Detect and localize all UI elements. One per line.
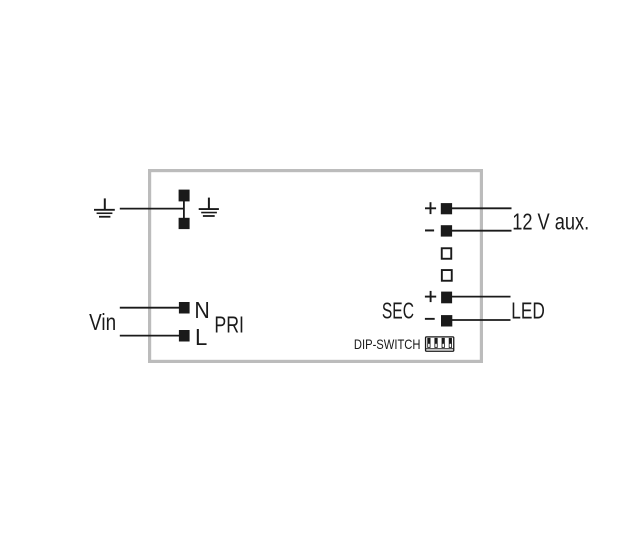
svg-text:DIP-SWITCH: DIP-SWITCH [354,336,421,352]
svg-text:L: L [195,324,207,350]
wire: +LED output [452,296,511,298]
svg-text:N: N [194,297,209,323]
label - (12 V aux.) [425,229,434,231]
ground symbol (external, left) [94,198,115,216]
terminal - LED [441,315,452,326]
svg-text:12 V aux.: 12 V aux. [512,209,589,235]
unused terminal 1 [442,248,452,259]
ground symbol (internal, right) [199,198,219,216]
wire: L input [120,335,179,337]
wire: N input [120,307,179,309]
terminal N [179,302,190,314]
terminal L [179,330,190,342]
svg-text:PRI: PRI [214,312,244,338]
label + (12 V aux.) [425,202,436,214]
label - (LED) [425,318,435,320]
svg-text:Vin: Vin [89,309,116,335]
wire: +12 V aux. output [452,207,512,209]
wire: -12 V aux. output [452,230,512,232]
wire: -LED output [452,319,511,321]
DIP switch S1 [426,337,454,351]
terminal + LED [441,292,452,304]
terminal - 12V aux [441,225,452,236]
terminal + 12V aux [441,203,452,214]
wire: earth input [120,208,184,210]
wire: link between earth terminals [183,201,185,218]
label + (LED) [425,291,436,302]
unused terminal 2 [442,270,452,281]
svg-text:LED: LED [511,297,545,323]
earth terminal (lower square) [179,218,190,229]
earth terminal (upper square) [179,190,190,202]
device outline box [150,171,482,362]
svg-text:SEC: SEC [382,298,414,324]
